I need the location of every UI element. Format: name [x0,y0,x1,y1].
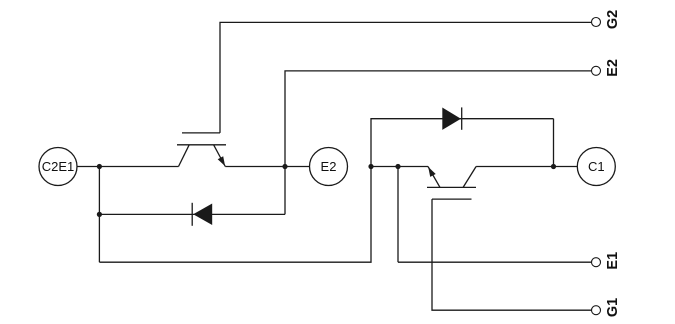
terminal C1 (main) [577,148,615,186]
junction: D2 anode node [97,212,102,217]
terminal G2 (gate 2) [592,10,621,29]
wire: left vertical C2E1 node down [98,167,100,263]
svg-text:E2: E2 [605,59,621,77]
wire: E1 bottom line left segment [99,119,553,263]
junction: D1 cathode node [551,164,556,169]
svg-text:G2: G2 [605,10,621,29]
junction: E2 sense node [282,164,287,169]
wire: D2 branch horizontal [99,213,285,215]
diode D2 (left freewheel) [192,203,212,226]
diode D1 (right freewheel) [442,107,461,129]
wire: E1 sense line right segment [398,261,592,263]
wire: emitter node vertical [397,167,399,263]
svg-text:G1: G1 [605,298,621,317]
wire: E2 sense line [285,71,592,215]
terminal E1 (sense) [592,252,621,270]
arrow: Q1 emitter [428,167,436,177]
terminal E2 (main) [310,148,348,186]
wire: emitter node rail to Q1 [371,166,428,168]
terminal C2E1 (main) [39,148,77,186]
junction: D1 anode node [368,164,373,169]
terminal E2 (sense) [592,59,621,77]
junction: C2E1 rail node [97,164,102,169]
wire: Q2 emitter to E2 main [225,166,309,168]
transistor Q1 (right IGBT) [427,167,476,200]
wire: gate line G1 bottom [432,199,592,310]
wire: D1 cathode vertical [553,119,555,167]
svg-text:C2E1: C2E1 [42,159,75,174]
svg-text:E1: E1 [605,252,621,270]
arrow: Q2 emitter [218,156,225,166]
wire: left rail C2E1 to Q2 collector [77,166,179,168]
svg-text:C1: C1 [588,159,605,174]
terminal G1 (gate 1) [592,298,621,317]
wire: gate rail G2 top [220,22,591,132]
svg-text:E2: E2 [321,159,337,174]
wire: Q1 collector to C1 main [476,166,577,168]
junction: E1 sense node [395,164,400,169]
transistor Q2 (left IGBT) [177,133,226,167]
